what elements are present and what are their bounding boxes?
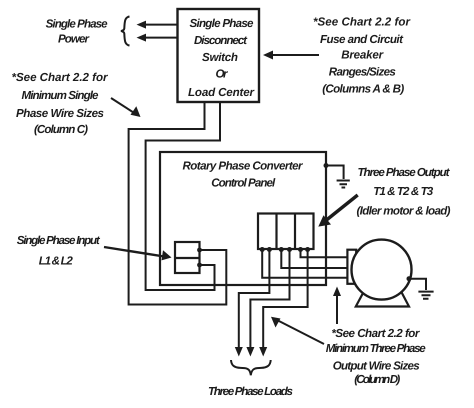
arrowhead bottom note [271,317,281,328]
arrowhead load 1 [235,347,243,357]
panel ground bars [337,181,350,188]
svg-text:Single Phase Input: Single Phase Input [17,234,101,247]
junction dots contactor terminals [260,247,265,252]
svg-text:Fuse and Circuit: Fuse and Circuit [320,33,404,46]
wire to load 3 [263,249,307,349]
svg-text:Rotary Phase Converter: Rotary Phase Converter [183,159,304,172]
svg-text:Single Phase: Single Phase [46,18,109,31]
arrow from fuse note to box [272,54,319,56]
arrowhead left note [131,106,141,117]
svg-text:(Columns A & B): (Columns A & B) [322,82,404,95]
arrow up to motor wires [336,292,338,324]
arrowhead load 3 [259,347,267,357]
svg-text:Load Center: Load Center [188,86,255,99]
input terminal block [175,242,200,273]
svg-text:T1 & T2 & T3: T1 & T2 & T3 [373,185,434,198]
control panel box [160,152,326,285]
contactor block [258,214,314,250]
arrowhead brace 2 [137,34,147,42]
arrowhead input label [162,250,172,260]
motor ground bars [418,292,433,299]
wire T1 to motor [301,249,348,257]
brace under load arrows [231,360,271,375]
svg-text:Phase Wire Sizes: Phase Wire Sizes [16,107,105,120]
svg-text:*See Chart 2.2 for: *See Chart 2.2 for [331,327,420,340]
svg-text:(Idler motor & load): (Idler motor & load) [357,204,451,217]
svg-text:Three Phase Output: Three Phase Output [358,166,451,179]
wire T3 to motor [262,249,347,278]
svg-text:Power: Power [58,32,90,45]
svg-text:Switch: Switch [202,51,238,64]
wire to brace arrow 2 [145,37,178,39]
svg-text:Single Phase: Single Phase [190,17,255,30]
wire B: L2 from disconnect to input terminal bottom [146,102,220,290]
svg-text:Minimum Three Phase: Minimum Three Phase [326,342,427,355]
svg-text:(Column D): (Column D) [354,373,400,386]
svg-text:Output Wire Sizes: Output Wire Sizes [333,359,421,372]
disconnect switch box [178,9,260,102]
junction dots input block [197,248,202,253]
arrow from bottom note to wires [276,320,324,345]
motor ground wire [409,279,426,290]
svg-text:L1 & L2: L1 & L2 [39,255,74,268]
wire to load 1 [239,249,270,349]
wire A: L1 from disconnect to input terminal top [129,102,227,305]
svg-text:Three Phase Loads: Three Phase Loads [208,385,294,398]
wire T2 to motor [281,249,347,268]
junction dot panel ground [324,163,329,168]
junction dot motor ground [407,276,412,281]
wire to brace arrow 1 [145,24,178,26]
svg-text:Disconnect: Disconnect [194,34,248,47]
arrowhead up arrow [333,287,341,297]
arrow from input label [104,247,164,257]
svg-text:*See Chart 2.2 for: *See Chart 2.2 for [12,71,109,84]
panel ground wire [326,166,344,180]
brace left of disconnect box [121,17,130,46]
arrowhead brace 1 [137,21,147,29]
svg-text:Control Panel: Control Panel [211,177,276,190]
arrowhead fuse note [263,51,273,60]
wire to load 2 [250,249,289,349]
svg-text:Breaker: Breaker [341,49,384,62]
svg-text:*See Chart 2.2 for: *See Chart 2.2 for [313,15,411,28]
svg-text:(Column C): (Column C) [34,123,88,136]
motor base [356,288,409,307]
svg-text:Or: Or [216,68,229,81]
motor junction box [347,250,356,284]
arrow from output label to contactor [324,195,358,222]
arrow from left note to wires [111,98,135,114]
arrowhead load 2 [246,347,254,357]
svg-text:Ranges/Sizes: Ranges/Sizes [329,66,397,79]
arrowhead output label [318,215,331,226]
motor body [352,240,412,300]
svg-text:Minimum Single: Minimum Single [22,89,100,102]
